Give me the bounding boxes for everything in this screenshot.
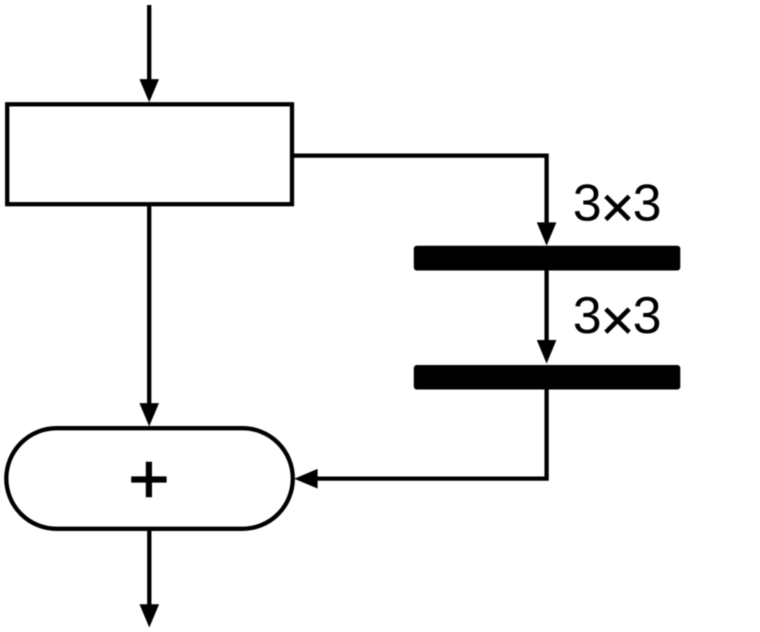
arrowhead into adder top — [139, 403, 159, 426]
conv layer bar 1 — [414, 246, 681, 271]
label 3x3 (upper) — [573, 174, 662, 232]
plus sign inside adder — [131, 462, 166, 498]
arrowhead into conv bar 1 — [537, 222, 557, 245]
svg-text:3: 3 — [573, 287, 602, 345]
svg-text:3: 3 — [633, 174, 662, 232]
input arrowhead into block — [139, 79, 159, 102]
arrowhead into conv bar 2 — [537, 340, 557, 364]
wire: output shaft from adder bottom — [147, 529, 151, 610]
wire: conv bar 2 down and left to adder — [314, 390, 547, 479]
output arrowhead — [140, 604, 160, 627]
label 3x3 (lower) — [573, 287, 662, 345]
adder stadium node — [6, 428, 293, 529]
block rectangle (weight block) — [7, 104, 292, 204]
svg-text:3: 3 — [573, 174, 602, 232]
wire: input shaft from top — [147, 5, 151, 84]
arrowhead into adder right side — [294, 469, 317, 489]
wire: branch from block right side to conv path — [292, 156, 547, 226]
wire: identity path from block bottom down to adder — [147, 204, 151, 408]
conv layer bar 2 — [414, 365, 681, 390]
wire: conv bar 1 to conv bar 2 — [544, 271, 548, 345]
svg-text:3: 3 — [633, 287, 662, 345]
